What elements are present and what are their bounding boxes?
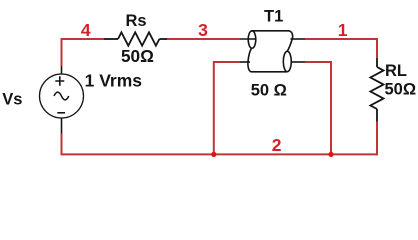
T1 bottom edge [251,71,288,73]
wire node 3 red segment [167,38,240,40]
transmission line T1 lead bottom-left (black) [240,61,250,63]
transmission line T1 lead top-right (black) [291,38,306,40]
svg-text:50Ω: 50Ω [121,46,154,66]
svg-text:3: 3 [198,20,208,40]
wire node 1 red segment top right [305,38,377,40]
svg-text:Rs: Rs [126,12,147,30]
wire right vertical red lower [376,122,378,156]
resistor Rs lead right (black) [159,38,167,40]
transmission line T1 lead bottom-right (black) [292,61,306,63]
T1 upper-left end ellipse [248,31,256,48]
wire T1 bottom-right red segment [305,62,331,154]
svg-text:1 Vrms: 1 Vrms [85,70,143,90]
voltage source sine wave [54,92,69,100]
svg-text:2: 2 [272,135,282,155]
svg-text:RL: RL [385,62,407,80]
wire left vertical red from rail to source [61,38,63,66]
T1 right S-curve edge [287,31,292,52]
T1 top edge [252,30,290,32]
junction dot left [211,152,216,157]
transmission line T1 lead top-left (black) [240,38,257,40]
resistor Rs lead left (black) [104,38,118,40]
svg-text:Vs: Vs [2,91,22,109]
svg-text:50Ω: 50Ω [385,81,417,99]
voltage source minus sign [57,112,65,114]
svg-text:1: 1 [338,20,348,40]
junction dot right [328,152,333,157]
wire right vertical red upper [376,38,378,58]
wire left vertical red to bottom rail [61,134,63,156]
wire top-left red segment node 4 [62,38,105,40]
voltage source Vs circle [40,74,84,118]
svg-text:50 Ω: 50 Ω [251,81,287,99]
T1 lower-right end ellipse [283,51,291,71]
voltage source Vs lead top (black) [61,66,63,75]
svg-text:T1: T1 [264,7,283,25]
wire bottom rail red [62,153,378,155]
svg-text:4: 4 [81,20,91,40]
T1 left S-curve edge [248,48,252,72]
voltage source Vs lead bottom (black) [61,118,63,134]
resistor RL lead top (black) [376,58,378,67]
resistor RL zigzag [370,67,383,109]
resistor RL lead bottom (black) [376,109,378,122]
wire T1 bottom-left red segment [214,62,240,154]
voltage source plus sign [55,76,64,86]
resistor Rs zigzag [118,32,159,45]
transmission line T1 body [248,31,293,72]
